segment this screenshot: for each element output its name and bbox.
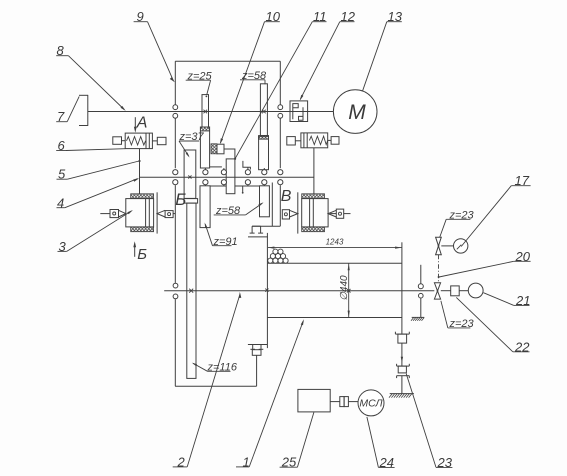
svg-text:Б: Б <box>137 246 147 263</box>
svg-text:Б: Б <box>175 190 186 209</box>
svg-text:А: А <box>136 115 148 132</box>
svg-text:24: 24 <box>379 455 394 470</box>
svg-text:В: В <box>281 188 292 205</box>
svg-text:z=91: z=91 <box>213 236 238 248</box>
svg-text:М: М <box>348 101 366 124</box>
svg-text:z=23: z=23 <box>449 210 475 222</box>
svg-text:∅440: ∅440 <box>339 275 350 301</box>
svg-text:МСЛ: МСЛ <box>359 398 383 410</box>
svg-text:23: 23 <box>437 455 453 470</box>
svg-text:1243: 1243 <box>326 237 344 246</box>
